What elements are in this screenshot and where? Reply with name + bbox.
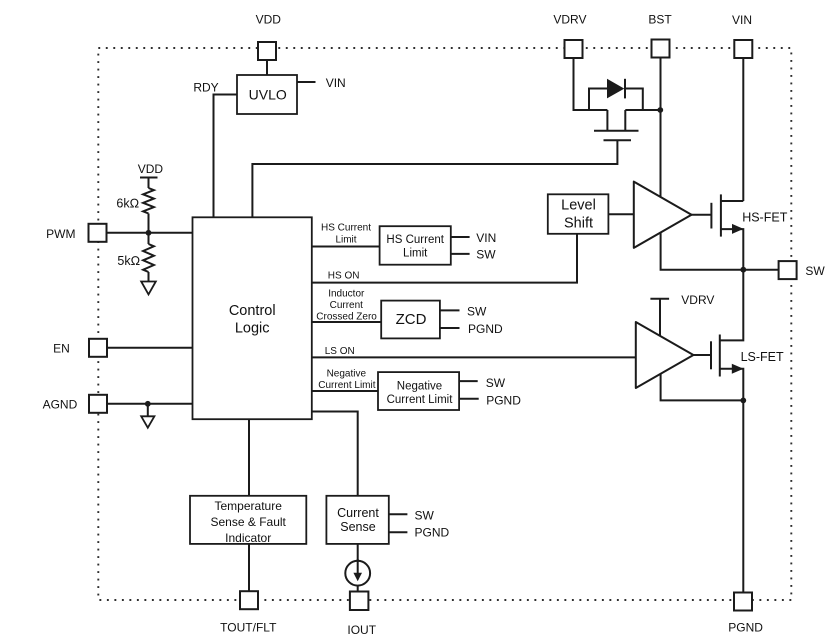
svg-text:Negative: Negative bbox=[327, 368, 367, 379]
svg-text:Shift: Shift bbox=[564, 216, 593, 232]
svg-text:HS Current: HS Current bbox=[321, 223, 371, 234]
svg-text:VDD: VDD bbox=[256, 12, 282, 26]
svg-text:Logic: Logic bbox=[235, 321, 270, 337]
svg-text:PGND: PGND bbox=[728, 621, 763, 635]
svg-text:HS Current: HS Current bbox=[386, 234, 444, 246]
svg-text:UVLO: UVLO bbox=[249, 87, 287, 103]
svg-text:Sense & Fault: Sense & Fault bbox=[211, 515, 287, 529]
svg-text:PWM: PWM bbox=[46, 227, 75, 241]
svg-text:PGND: PGND bbox=[415, 526, 450, 540]
svg-text:VIN: VIN bbox=[476, 231, 496, 245]
svg-text:SW: SW bbox=[805, 264, 825, 278]
svg-text:LS-FET: LS-FET bbox=[741, 350, 784, 364]
svg-text:Current Limit: Current Limit bbox=[387, 394, 454, 406]
svg-text:HS-FET: HS-FET bbox=[742, 210, 788, 224]
svg-text:Sense: Sense bbox=[340, 520, 375, 534]
svg-text:SW: SW bbox=[476, 247, 496, 261]
svg-text:6kΩ: 6kΩ bbox=[116, 197, 139, 211]
svg-text:Indicator: Indicator bbox=[225, 531, 271, 545]
svg-text:Temperature: Temperature bbox=[215, 499, 283, 513]
svg-text:VIN: VIN bbox=[732, 13, 752, 27]
svg-text:Current Limit: Current Limit bbox=[318, 380, 375, 391]
svg-text:TOUT/FLT: TOUT/FLT bbox=[220, 621, 277, 635]
svg-text:EN: EN bbox=[53, 341, 70, 355]
svg-text:Level: Level bbox=[561, 198, 596, 214]
svg-text:Current: Current bbox=[337, 506, 379, 520]
svg-text:Control: Control bbox=[229, 303, 276, 319]
svg-text:Negative: Negative bbox=[397, 380, 442, 392]
svg-text:VDRV: VDRV bbox=[553, 13, 586, 27]
svg-text:SW: SW bbox=[467, 305, 487, 319]
svg-text:AGND: AGND bbox=[43, 397, 78, 411]
svg-text:RDY: RDY bbox=[193, 81, 218, 95]
svg-text:VDD: VDD bbox=[138, 162, 164, 176]
svg-text:VIN: VIN bbox=[326, 76, 346, 90]
svg-text:PGND: PGND bbox=[486, 393, 521, 407]
svg-text:VDRV: VDRV bbox=[681, 293, 714, 307]
svg-text:Inductor: Inductor bbox=[328, 288, 365, 299]
svg-text:PGND: PGND bbox=[468, 322, 503, 336]
svg-text:IOUT: IOUT bbox=[347, 623, 376, 637]
svg-text:LS ON: LS ON bbox=[325, 346, 355, 357]
svg-text:Crossed Zero: Crossed Zero bbox=[316, 312, 377, 323]
svg-text:5kΩ: 5kΩ bbox=[117, 254, 140, 268]
svg-text:Current: Current bbox=[330, 300, 364, 311]
svg-text:HS ON: HS ON bbox=[328, 271, 360, 282]
svg-text:SW: SW bbox=[486, 376, 506, 390]
svg-text:Limit: Limit bbox=[403, 248, 428, 260]
svg-text:ZCD: ZCD bbox=[396, 311, 427, 328]
svg-text:BST: BST bbox=[648, 13, 672, 27]
svg-text:Limit: Limit bbox=[335, 234, 356, 245]
svg-text:SW: SW bbox=[415, 509, 435, 523]
